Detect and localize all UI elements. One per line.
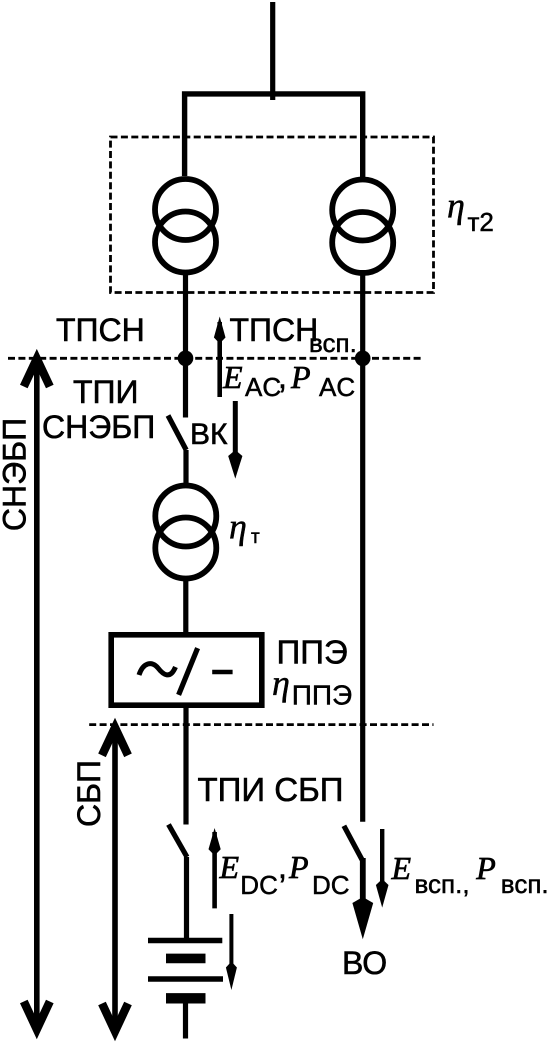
svg-text:ТПИ: ТПИ	[73, 374, 139, 410]
arrow up: TPSN vsp feed	[214, 317, 226, 398]
svg-text:ТПИ СБП: ТПИ СБП	[198, 771, 344, 808]
wire: below switch BK to T3	[183, 450, 188, 487]
svg-text:,: ,	[278, 849, 287, 885]
wire: PPE output down to SBP switch	[183, 705, 188, 825]
svg-text:всп.,: всп.,	[415, 869, 470, 899]
arrow down: E_vsp flow	[376, 829, 389, 908]
wire: switch to battery	[184, 857, 189, 938]
arrow down: battery charge	[226, 914, 237, 990]
label TPI SNEBP	[42, 374, 155, 445]
converter PPE box	[111, 635, 262, 705]
label E_DC, P_DC	[219, 849, 350, 900]
transformer T1 (left input)	[155, 179, 216, 273]
arrow down thick: to BO	[352, 858, 373, 939]
label eta_PPE	[272, 663, 352, 711]
dashed line: SBP bus boundary	[89, 723, 433, 726]
svg-text:ВО: ВО	[342, 945, 387, 981]
switch BK blade	[168, 416, 186, 451]
svg-text:E: E	[219, 849, 240, 885]
switch: battery branch blade	[169, 825, 188, 858]
wire: left branch from T1 to switch BK	[183, 270, 188, 418]
svg-text:ППЭ: ППЭ	[292, 680, 352, 711]
svg-text:P: P	[288, 849, 309, 885]
label E_AC, P_AC	[222, 359, 355, 402]
arrow down: AC consumption	[228, 401, 242, 479]
battery GB	[148, 941, 223, 1039]
svg-text:P: P	[475, 850, 496, 886]
svg-text:т2: т2	[468, 207, 494, 237]
svg-text:СНЭБП: СНЭБП	[0, 418, 33, 531]
svg-text:η: η	[229, 507, 247, 547]
svg-text:E: E	[222, 359, 243, 395]
svg-text:ВК: ВК	[190, 418, 228, 451]
svg-text:η: η	[447, 186, 465, 226]
arrow double: SNEBP span	[24, 359, 50, 1030]
wire: T3 to PPE box	[183, 576, 188, 633]
svg-text:DC: DC	[312, 870, 350, 900]
svg-text:DC: DC	[240, 870, 278, 900]
wire: top bus with two drops	[185, 94, 363, 178]
dashed line: TPSN bus boundary	[8, 357, 421, 360]
minus symbol inside PPE	[212, 670, 232, 675]
svg-text:AC: AC	[319, 372, 355, 402]
dashed box around input transformers	[111, 137, 434, 293]
wire: top feeder stem	[270, 2, 275, 100]
transformer T3 (eta_t)	[155, 486, 216, 579]
arrow up: E_DC feed	[209, 828, 221, 908]
label eta_t	[229, 507, 260, 549]
label TPSN vsp.	[230, 312, 357, 358]
junction: right wire on TPSN bus	[355, 351, 371, 367]
svg-text:P: P	[290, 359, 311, 395]
svg-text:ТПСН: ТПСН	[230, 312, 319, 348]
arrow double: SBP span	[102, 728, 128, 1032]
svg-text:всп.: всп.	[309, 328, 357, 358]
transformer T2 (right input)	[332, 180, 393, 274]
svg-text:т: т	[251, 527, 260, 548]
svg-text:,: ,	[278, 359, 287, 395]
svg-text:всп.: всп.	[501, 869, 548, 899]
label E_vsp., P_vsp.	[391, 850, 548, 899]
tilde symbol inside PPE	[139, 664, 176, 675]
svg-text:СБП: СБП	[71, 760, 107, 827]
wire: right branch from T2 down	[360, 270, 365, 822]
label eta_t2	[447, 186, 494, 238]
svg-text:СНЭБП: СНЭБП	[42, 409, 155, 445]
slash symbol inside PPE	[179, 648, 198, 695]
svg-text:ТПСН: ТПСН	[56, 312, 145, 348]
svg-text:E: E	[391, 850, 412, 886]
switch: auxiliary branch blade	[344, 826, 362, 860]
svg-text:η: η	[272, 663, 290, 703]
svg-text:AC: AC	[245, 372, 281, 402]
junction: left wire on TPSN bus	[178, 351, 194, 367]
